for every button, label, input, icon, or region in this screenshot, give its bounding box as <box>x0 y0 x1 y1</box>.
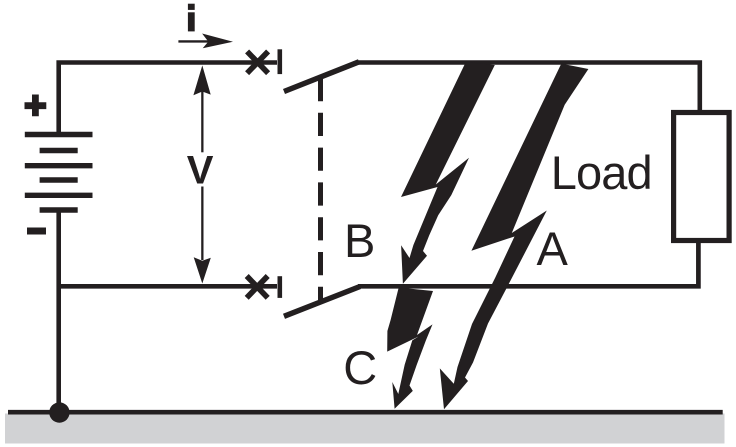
surge lightning arrow A <box>440 64 589 410</box>
svg-text:B: B <box>344 214 375 267</box>
ground line <box>8 410 723 415</box>
wire: battery bottom lead down to ground <box>56 212 61 412</box>
switch S2 contact cross (bottom) <box>247 276 268 298</box>
mechanical link between switch blades (dashed) <box>318 78 323 300</box>
svg-text:C: C <box>343 341 377 394</box>
battery negative terminal label - <box>27 228 46 235</box>
wire: load bottom lead and bottom-right wire segment <box>358 241 698 287</box>
wire: battery top lead and top-left wire segment <box>59 63 277 134</box>
surge lightning arrow C <box>387 288 433 409</box>
wire: bottom-left wire segment <box>59 284 277 289</box>
battery positive terminal label + <box>25 95 47 117</box>
switch S1 blade (top) <box>284 62 359 92</box>
svg-text:A: A <box>537 222 569 275</box>
battery BT1 <box>25 135 93 211</box>
current arrow i <box>178 34 233 49</box>
switch S1 fixed contact bar (top) <box>277 49 282 74</box>
earth ground plane <box>5 414 725 444</box>
switch S2 fixed contact bar (bottom) <box>277 276 282 298</box>
resistor: Load box <box>674 113 730 241</box>
current label i <box>188 4 195 32</box>
svg-text:V: V <box>187 149 214 193</box>
switch S1 contact cross (top) <box>247 51 268 73</box>
voltage arrow (down head) <box>194 187 211 284</box>
switch S2 blade (bottom) <box>284 287 360 317</box>
surge lightning arrow B <box>401 62 495 284</box>
voltage arrow (up head) <box>193 65 210 152</box>
node: ground junction dot <box>49 402 69 422</box>
svg-text:Load: Load <box>551 146 652 199</box>
wire: top-right wire segment to load <box>357 63 700 113</box>
